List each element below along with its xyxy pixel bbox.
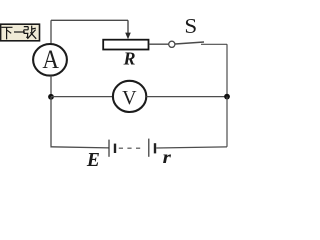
svg-text:R: R <box>122 49 135 69</box>
svg-text:A: A <box>42 46 59 75</box>
voltmeter V <box>113 81 146 112</box>
wire: bottom rail right (battery to corner) <box>156 147 227 148</box>
wire: right rail lower (node B to bottom corner) <box>226 97 228 147</box>
svg-text:r: r <box>163 149 172 168</box>
battery cell 2 short plate (-) <box>154 143 156 153</box>
wire: right rail upper (corner to node B) <box>226 44 228 96</box>
battery dashed link <box>119 147 141 149</box>
battery cell 1 short plate (-) <box>114 144 116 153</box>
wire: voltmeter branch right <box>146 96 227 98</box>
next button (下一张) <box>1 24 40 41</box>
wire: bottom rail left (corner to battery) <box>51 147 109 148</box>
wire: top rail (to rheostat slider) <box>51 19 128 21</box>
svg-text:S: S <box>184 14 197 38</box>
rheostat slider arrow <box>125 20 131 39</box>
svg-text:V: V <box>122 87 137 109</box>
wire: ammeter to node A <box>50 76 52 97</box>
张 <box>24 27 29 38</box>
svg-text:E: E <box>86 149 100 171</box>
wire: left rail top segment (top rail corner down to ammeter) <box>50 20 52 44</box>
switch S pivot <box>169 41 175 47</box>
wire: voltmeter branch left <box>51 96 113 98</box>
node A (left junction dot) <box>48 94 54 100</box>
下 <box>2 27 13 39</box>
battery cell 1 long plate (+) <box>108 140 110 157</box>
wire: rheostat to switch <box>149 43 169 45</box>
resistor R (rheostat body) <box>103 40 148 50</box>
wire: switch to top-right corner <box>201 43 227 45</box>
一 <box>14 31 25 33</box>
ammeter A <box>33 44 67 76</box>
node B (right junction dot) <box>224 94 230 100</box>
battery cell 2 long plate (+) <box>148 139 150 157</box>
wire: left rail lower (node A to bottom corner) <box>50 97 52 147</box>
switch S blade <box>175 42 204 44</box>
